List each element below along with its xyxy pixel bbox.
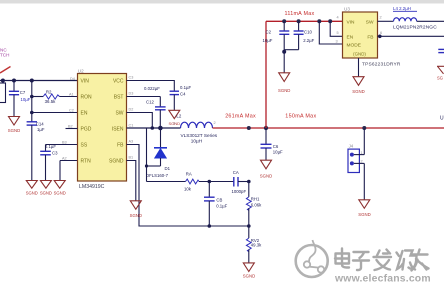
svg-text:C3: C3 <box>52 151 58 156</box>
capacitor C4 <box>170 85 192 110</box>
ground under C6 <box>261 160 272 169</box>
svg-text:SW: SW <box>115 111 123 117</box>
svg-text:www.elecfans.com: www.elecfans.com <box>334 274 431 285</box>
node junction C6 tap on output <box>264 126 268 130</box>
svg-text:0.1µF: 0.1µF <box>216 204 227 209</box>
svg-text:SGND: SGND <box>352 89 364 94</box>
wire ISEN loop to D1 anode <box>147 128 161 182</box>
resistor RA <box>147 172 234 192</box>
U2 pin designators <box>62 75 133 160</box>
svg-text:DFLS160-7: DFLS160-7 <box>146 173 169 178</box>
svg-text:CA: CA <box>233 170 239 175</box>
wire FB drop and bottom rail <box>127 145 249 227</box>
wire connector to rail <box>2 81 4 84</box>
svg-text:C12: C12 <box>146 100 154 105</box>
svg-text:A3: A3 <box>129 139 134 143</box>
svg-text:1000pF: 1000pF <box>232 189 247 194</box>
svg-text:10µF: 10µF <box>273 149 283 154</box>
svg-text:C6: C6 <box>273 144 279 149</box>
svg-text:VLS3012T Series: VLS3012T Series <box>181 133 218 138</box>
svg-text:C2: C2 <box>69 109 74 113</box>
capacitor CB <box>204 182 228 227</box>
ground under RTN <box>54 181 65 189</box>
node junction C2-C10 bottoms <box>282 50 286 54</box>
U3 pin numbers <box>336 16 383 44</box>
svg-text:SGND: SGND <box>130 213 142 218</box>
capacitor C10 <box>284 21 314 49</box>
svg-text:SS: SS <box>81 143 88 149</box>
svg-text:B1: B1 <box>129 155 134 159</box>
svg-text:SGND: SGND <box>278 88 290 93</box>
svg-text:SGND: SGND <box>26 190 38 195</box>
svg-text:EN: EN <box>81 111 88 117</box>
inductor L2 <box>173 113 218 143</box>
ground under RV2 <box>243 263 254 272</box>
diode D1 <box>146 128 171 178</box>
connector box cut at left edge <box>0 83 6 103</box>
svg-text:SG: SG <box>437 76 443 81</box>
capacitor C12 bootstrap <box>127 86 166 128</box>
svg-text:RTN: RTN <box>81 159 92 165</box>
node junction SW at switch line <box>151 126 155 130</box>
wire RTN row U2 <box>60 161 78 181</box>
svg-text:C1: C1 <box>129 123 134 127</box>
svg-text:2: 2 <box>214 121 216 125</box>
wire U3 GND drop <box>358 58 360 77</box>
wire L4 to right edge <box>417 20 444 22</box>
svg-text:VIN: VIN <box>347 19 356 25</box>
svg-text:VIN: VIN <box>81 79 90 85</box>
top grey band <box>0 0 444 4</box>
svg-text:10µF: 10µF <box>263 38 273 43</box>
capacitor C2 <box>263 21 290 52</box>
wire FB net <box>378 35 444 37</box>
svg-text:A1: A1 <box>69 93 74 97</box>
ground at right edge (cut) <box>437 66 444 74</box>
ground under U3 <box>353 77 364 86</box>
node junction CB at rail <box>208 224 212 228</box>
wire VCC row <box>127 81 175 92</box>
svg-text:150mA Max: 150mA Max <box>285 114 316 120</box>
svg-text:J4: J4 <box>349 144 354 149</box>
svg-text:PGD: PGD <box>81 127 92 133</box>
svg-text:B3: B3 <box>62 140 67 144</box>
svg-text:C10: C10 <box>304 30 312 35</box>
node junction J4 tap on output <box>362 126 366 130</box>
svg-text:A2: A2 <box>62 156 67 160</box>
svg-text:6: 6 <box>380 31 382 35</box>
U2 pin labels <box>81 79 125 165</box>
svg-text:C7: C7 <box>20 90 26 95</box>
svg-text:36.5k: 36.5k <box>45 99 57 104</box>
wire red 111mA rail <box>266 20 343 22</box>
svg-text:LM34919C: LM34919C <box>79 184 105 190</box>
capacitor C14 <box>27 81 45 181</box>
svg-text:SW: SW <box>366 19 374 25</box>
watermark text dianzifashaoyou <box>335 249 429 271</box>
wire J4 pin1 to output <box>363 128 365 155</box>
node junction dots on 111mA rail <box>282 19 286 23</box>
svg-text:2.2µF: 2.2µF <box>303 38 314 43</box>
svg-text:10µH: 10µH <box>191 139 202 144</box>
node junction RH1-RV2 at rail <box>247 224 251 228</box>
svg-text:ISEN: ISEN <box>112 127 124 133</box>
svg-text:U2: U2 <box>78 68 84 73</box>
svg-text:1µF: 1µF <box>37 127 45 132</box>
svg-text:RA: RA <box>186 172 192 177</box>
svg-text:0.022µF: 0.022µF <box>144 86 160 91</box>
connector J4 <box>348 144 364 173</box>
op-amp U2 LM34919C body <box>78 74 127 182</box>
svg-text:SGND: SGND <box>8 128 20 133</box>
inductor L4 <box>393 6 437 31</box>
svg-text:TCH: TCH <box>0 53 9 58</box>
node junction D1 cathode at switch line <box>158 126 163 131</box>
node junction CA-RH1 <box>247 180 251 184</box>
svg-text:C2: C2 <box>266 30 272 35</box>
svg-text:1: 1 <box>361 151 363 155</box>
svg-text:RON: RON <box>81 95 93 101</box>
svg-text:CB: CB <box>216 197 222 202</box>
svg-text:SGND: SGND <box>109 159 124 165</box>
wire EN row U2 <box>32 112 78 114</box>
svg-text:RH1: RH1 <box>251 197 260 202</box>
svg-text:6.06k: 6.06k <box>251 202 262 207</box>
node junction U3 FB <box>378 35 382 39</box>
svg-text:BST: BST <box>114 95 124 101</box>
wire MODE drop <box>319 21 342 44</box>
ground under C4 <box>169 110 180 118</box>
ground under C7 <box>9 117 20 126</box>
svg-text:B2: B2 <box>68 125 73 129</box>
svg-text:SGND: SGND <box>54 190 66 195</box>
svg-text:SGND: SGND <box>243 273 255 278</box>
resistor RV2 <box>246 226 262 263</box>
svg-text:FB: FB <box>367 34 373 40</box>
svg-text:SGND: SGND <box>358 212 370 217</box>
svg-text:4: 4 <box>337 16 339 20</box>
resistor R2 <box>32 89 78 104</box>
wire EN drop <box>330 21 342 36</box>
svg-text:TPS62231DRYR: TPS62231DRYR <box>362 62 401 68</box>
svg-text:C14: C14 <box>36 122 44 127</box>
svg-text:(GND): (GND) <box>353 51 366 56</box>
svg-text:EN: EN <box>347 34 354 40</box>
capacitor C7 <box>9 81 31 117</box>
node junction feedback tap on output <box>247 126 251 130</box>
svg-text:R2: R2 <box>46 89 52 94</box>
capacitor CA <box>232 170 249 194</box>
svg-text:C4: C4 <box>180 92 186 97</box>
svg-text:C3: C3 <box>129 75 134 79</box>
svg-text:3: 3 <box>336 40 338 44</box>
ground under J4 <box>359 200 370 209</box>
U3 pin labels <box>347 19 374 56</box>
svg-text:1: 1 <box>173 122 175 126</box>
wire VIN rail <box>0 80 78 82</box>
watermark logo circle <box>296 240 328 277</box>
node junction R2 tap <box>30 95 34 99</box>
node junction EN tap <box>30 111 34 115</box>
wire SW drop <box>127 113 153 129</box>
svg-text:5: 5 <box>337 31 339 35</box>
svg-text:U3: U3 <box>344 7 350 12</box>
capacitor at right edge (cut) <box>438 49 444 52</box>
svg-text:49.3k: 49.3k <box>251 243 262 248</box>
wire red input stub <box>0 67 11 74</box>
svg-text:MODE: MODE <box>347 42 361 48</box>
wire output net 261mA <box>213 127 444 129</box>
svg-text:0.1µF: 0.1µF <box>45 144 56 149</box>
ground under U2 SGND <box>130 201 141 210</box>
svg-text:10µF: 10µF <box>21 97 31 102</box>
svg-text:D3: D3 <box>129 91 134 95</box>
svg-text:2: 2 <box>361 160 363 164</box>
capacitor C3 <box>40 144 77 181</box>
svg-text:SGND: SGND <box>260 173 272 178</box>
svg-text:261mA Max: 261mA Max <box>225 114 256 120</box>
svg-text:VCC: VCC <box>113 79 124 85</box>
svg-text:D2: D2 <box>129 107 134 111</box>
svg-text:LQM21PN2R2NGC: LQM21PN2R2NGC <box>393 25 437 31</box>
svg-text:L2: L2 <box>176 113 181 118</box>
regulator U3 TPS62231 body <box>343 12 378 58</box>
svg-text:111mA Max: 111mA Max <box>285 11 315 17</box>
svg-text:D4: D4 <box>70 77 75 81</box>
node junction ISEN loop <box>145 164 148 167</box>
resistor RH1 <box>246 182 262 227</box>
svg-text:L4 2.2µH: L4 2.2µH <box>393 6 411 11</box>
ground under C14 <box>26 181 37 189</box>
node junction dots on VIN rail <box>1 79 5 83</box>
svg-text:U: U <box>440 116 444 122</box>
wire J4 pin2 to ground <box>363 163 365 199</box>
node junction RA-CA-CB <box>208 180 212 184</box>
U3 SW stub <box>378 20 394 22</box>
ground under C2 <box>279 73 290 82</box>
wire ISEN / switch node line <box>127 127 181 129</box>
wire C2 to ground <box>283 52 285 73</box>
svg-text:FB: FB <box>117 143 124 149</box>
wire red VIN riser <box>265 21 267 128</box>
wire U2 SGND drop <box>127 161 136 201</box>
svg-text:2: 2 <box>380 16 382 20</box>
svg-text:0.1µF: 0.1µF <box>180 85 191 90</box>
svg-text:D1: D1 <box>165 166 171 171</box>
capacitor C6 <box>261 128 284 160</box>
U2 pin PGD stub <box>66 128 78 130</box>
svg-text:SGND: SGND <box>40 190 52 195</box>
svg-text:10k: 10k <box>184 187 192 192</box>
ground under C3 <box>40 181 51 189</box>
